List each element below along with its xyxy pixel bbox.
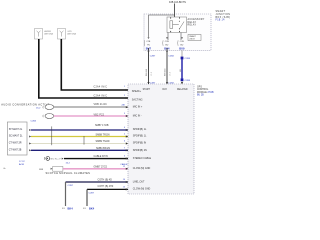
svg-text:DELAY: DELAY bbox=[188, 21, 197, 24]
svg-text:J/BOX: J/BOX bbox=[189, 39, 195, 41]
svg-text:BK4: BK4 bbox=[89, 207, 95, 211]
svg-text:VDB 21/2C: VDB 21/2C bbox=[94, 103, 108, 106]
svg-text:C2B7: C2B7 bbox=[89, 193, 95, 195]
svg-text:C2A4 IN/C: C2A4 IN/C bbox=[94, 95, 108, 98]
svg-text:17-2C: 17-2C bbox=[19, 161, 25, 163]
svg-text:SMB7 17/2B: SMB7 17/2B bbox=[95, 124, 109, 127]
svg-text:START: START bbox=[143, 88, 151, 91]
svg-text:CT WN7 2B: CT WN7 2B bbox=[9, 149, 22, 152]
svg-text:C2B4: C2B4 bbox=[168, 82, 174, 84]
svg-text:SMART: SMART bbox=[216, 10, 226, 13]
svg-text:WH-LB: WH-LB bbox=[146, 68, 148, 76]
svg-text:CONTROL: CONTROL bbox=[197, 89, 209, 91]
svg-text:C2B9: C2B9 bbox=[185, 80, 191, 82]
svg-text:CLOW (M) GND: CLOW (M) GND bbox=[133, 188, 151, 191]
svg-text:COTH (B) 4D: COTH (B) 4D bbox=[98, 178, 113, 181]
svg-text:CLOW (M) GND: CLOW (M) GND bbox=[133, 167, 151, 170]
svg-text:CABLE: CABLE bbox=[120, 163, 128, 166]
svg-text:BU: BU bbox=[180, 44, 183, 46]
svg-text:ACM: ACM bbox=[19, 163, 24, 166]
svg-text:MIC IN +: MIC IN + bbox=[133, 106, 143, 109]
svg-text:STEREO CABLE: STEREO CABLE bbox=[133, 157, 152, 160]
svg-text:16-2: 16-2 bbox=[36, 108, 41, 110]
svg-text:BU9: BU9 bbox=[179, 47, 185, 51]
svg-text:SPDIF(B) 2N: SPDIF(B) 2N bbox=[133, 149, 147, 152]
svg-text:MIC IN -: MIC IN - bbox=[133, 114, 142, 117]
svg-text:SMB4 BK/2N: SMB4 BK/2N bbox=[96, 147, 110, 150]
svg-text:SPDIF(B) 1L: SPDIF(B) 1L bbox=[133, 135, 147, 138]
svg-text:F2B 10A BK/TN: F2B 10A BK/TN bbox=[169, 1, 186, 4]
svg-text:BU 2B: BU 2B bbox=[197, 95, 204, 97]
svg-text:COTH (B) 4H0: COTH (B) 4H0 bbox=[98, 185, 114, 188]
svg-text:F1B 14: F1B 14 bbox=[216, 20, 226, 22]
svg-text:SPDIF(B) 1L: SPDIF(B) 1L bbox=[133, 128, 147, 131]
svg-text:SPDIF(B) IN: SPDIF(B) IN bbox=[133, 142, 147, 145]
svg-text:AUDIO CONVERSATION ACTIVE: AUDIO CONVERSATION ACTIVE bbox=[1, 104, 50, 107]
svg-text:GMB7 27/22: GMB7 27/22 bbox=[94, 165, 108, 168]
svg-text:ANT/2NA: ANT/2NA bbox=[44, 33, 53, 36]
svg-text:MIC IN+ 27: MIC IN+ 27 bbox=[51, 158, 62, 160]
svg-text:JUNCTION: JUNCTION bbox=[216, 14, 231, 16]
svg-text:RELAY: RELAY bbox=[188, 24, 197, 27]
svg-text:GPS: GPS bbox=[67, 31, 72, 33]
svg-text:SMB8 TR/2N: SMB8 TR/2N bbox=[96, 133, 110, 136]
svg-text:SPEAK+: SPEAK+ bbox=[132, 90, 142, 93]
svg-text:C2B9: C2B9 bbox=[185, 58, 191, 60]
svg-text:CABLE KIT/C: CABLE KIT/C bbox=[94, 155, 109, 158]
svg-text:C2B: C2B bbox=[146, 41, 151, 43]
svg-text:TN: TN bbox=[147, 44, 150, 46]
svg-text:ST MAX7 2L: ST MAX7 2L bbox=[9, 128, 23, 131]
svg-text:C2B7: C2B7 bbox=[68, 185, 74, 187]
svg-text:C2B7: C2B7 bbox=[150, 82, 156, 84]
svg-text:C2A4 IN/C: C2A4 IN/C bbox=[94, 86, 108, 89]
svg-text:DELAYED: DELAYED bbox=[177, 88, 188, 91]
svg-text:GPS: GPS bbox=[197, 86, 202, 88]
svg-text:MODULE 27/2B: MODULE 27/2B bbox=[197, 92, 214, 94]
svg-text:BOX (SJB): BOX (SJB) bbox=[216, 17, 231, 19]
svg-text:SACT/NG: SACT/NG bbox=[132, 99, 143, 102]
svg-text:SCOTCH MCPHAIL CLUMATES: SCOTCH MCPHAIL CLUMATES bbox=[46, 171, 91, 175]
svg-text:C2B: C2B bbox=[180, 41, 185, 43]
svg-text:C2B4: C2B4 bbox=[31, 121, 37, 123]
svg-text:LINE_OUT: LINE_OUT bbox=[133, 180, 145, 183]
svg-text:WH-BU: WH-BU bbox=[165, 68, 167, 76]
svg-text:DAY: DAY bbox=[163, 88, 168, 91]
svg-text:ACCESSORY: ACCESSORY bbox=[188, 18, 205, 21]
svg-text:BK4: BK4 bbox=[68, 207, 74, 211]
svg-text:CT WN7 2R: CT WN7 2R bbox=[9, 141, 22, 144]
svg-text:SMB9 TN/2D: SMB9 TN/2D bbox=[96, 140, 110, 143]
svg-text:16-2: 16-2 bbox=[66, 162, 71, 164]
svg-text:SC MAX7 2L: SC MAX7 2L bbox=[9, 135, 23, 138]
svg-text:C2B: C2B bbox=[165, 41, 170, 43]
svg-text:BU: BU bbox=[165, 44, 168, 46]
svg-text:VB2 P22: VB2 P22 bbox=[94, 113, 105, 116]
svg-text:AM/FM: AM/FM bbox=[44, 30, 51, 33]
svg-text:C2B7: C2B7 bbox=[150, 55, 156, 57]
svg-text:ANT/2NA: ANT/2NA bbox=[67, 33, 76, 36]
svg-text:C2B4: C2B4 bbox=[168, 55, 174, 57]
